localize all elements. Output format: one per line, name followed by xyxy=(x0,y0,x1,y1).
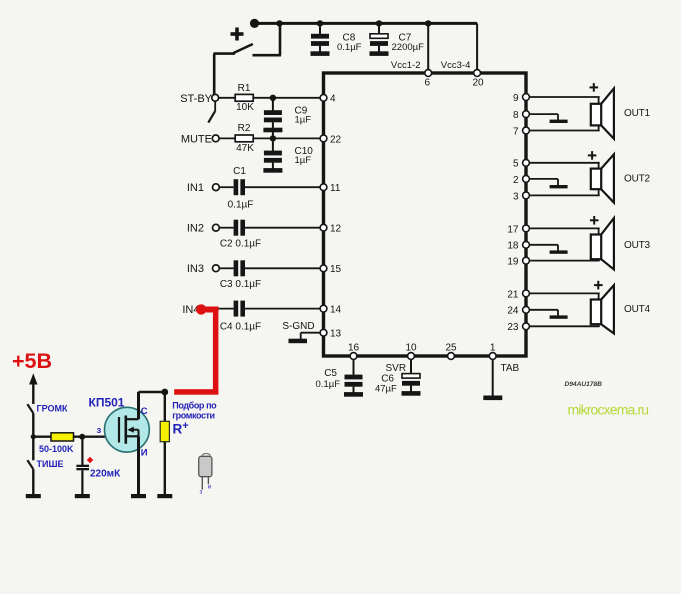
svg-text:1: 1 xyxy=(490,343,496,354)
svg-text:24: 24 xyxy=(507,306,519,317)
svg-text:и: и xyxy=(208,485,211,491)
svg-text:Подбор по: Подбор по xyxy=(172,401,217,411)
svg-text:IN3: IN3 xyxy=(187,263,204,275)
svg-text:TAB: TAB xyxy=(501,363,520,374)
svg-text:47K: 47K xyxy=(236,143,254,154)
svg-text:220мК: 220мК xyxy=(90,469,121,480)
svg-text:10K: 10K xyxy=(236,102,254,113)
svg-text:9: 9 xyxy=(513,93,519,104)
svg-text:16: 16 xyxy=(348,343,360,354)
svg-text:C1: C1 xyxy=(233,166,246,177)
svg-text:OUT2: OUT2 xyxy=(624,174,651,185)
svg-text:ST-BY: ST-BY xyxy=(180,93,212,105)
svg-text:ГРОМК: ГРОМК xyxy=(37,403,68,413)
svg-text:25: 25 xyxy=(445,343,457,354)
svg-text:C3 0.1µF: C3 0.1µF xyxy=(220,279,261,290)
svg-text:0.1µF: 0.1µF xyxy=(228,200,254,211)
svg-text:Vcc3-4: Vcc3-4 xyxy=(441,60,471,71)
svg-text:OUT1: OUT1 xyxy=(624,108,651,119)
svg-text:2: 2 xyxy=(513,175,519,186)
svg-text:0.1µF: 0.1µF xyxy=(337,42,362,53)
svg-text:17: 17 xyxy=(507,224,519,235)
svg-text:3: 3 xyxy=(513,191,519,202)
svg-text:4: 4 xyxy=(330,94,336,105)
svg-text:20: 20 xyxy=(473,78,485,89)
svg-text:КП501: КП501 xyxy=(89,395,125,409)
svg-text:D94AU178B: D94AU178B xyxy=(565,381,603,388)
svg-text:з: з xyxy=(97,425,102,436)
svg-text:22: 22 xyxy=(330,134,342,145)
svg-text:5: 5 xyxy=(513,159,519,170)
svg-text:+5В: +5В xyxy=(12,349,52,373)
svg-text:1µF: 1µF xyxy=(295,115,312,126)
svg-text:50-100K: 50-100K xyxy=(39,444,74,454)
svg-text:MUTE: MUTE xyxy=(181,133,212,145)
svg-text:IN2: IN2 xyxy=(187,223,204,235)
svg-text:12: 12 xyxy=(330,224,342,235)
svg-text:2200µF: 2200µF xyxy=(392,42,425,53)
svg-text:47µF: 47µF xyxy=(375,383,397,394)
svg-text:14: 14 xyxy=(330,305,342,316)
svg-text:R1: R1 xyxy=(238,83,251,94)
svg-text:Vcc1-2: Vcc1-2 xyxy=(391,60,421,71)
svg-text:OUT4: OUT4 xyxy=(624,304,651,315)
svg-text:IN1: IN1 xyxy=(187,182,204,194)
svg-text:21: 21 xyxy=(507,289,519,300)
svg-text:11: 11 xyxy=(330,183,341,194)
svg-text:10: 10 xyxy=(405,343,417,354)
svg-text:23: 23 xyxy=(507,322,519,333)
svg-text:R2: R2 xyxy=(238,123,251,134)
svg-text:SVR: SVR xyxy=(386,363,407,374)
svg-text:7: 7 xyxy=(513,126,519,137)
svg-text:6: 6 xyxy=(425,78,431,89)
svg-text:19: 19 xyxy=(507,257,519,268)
svg-text:C4 0.1µF: C4 0.1µF xyxy=(220,321,261,332)
svg-text:18: 18 xyxy=(507,241,519,252)
svg-text:C2 0.1µF: C2 0.1µF xyxy=(220,238,261,249)
svg-text:И: И xyxy=(141,448,148,459)
svg-text:громкости: громкости xyxy=(172,411,214,421)
svg-text:C5: C5 xyxy=(324,368,337,379)
svg-text:з: з xyxy=(200,490,203,496)
svg-text:13: 13 xyxy=(330,329,342,340)
svg-text:ТИШЕ: ТИШЕ xyxy=(37,459,64,469)
svg-text:15: 15 xyxy=(330,264,342,275)
svg-text:S-GND: S-GND xyxy=(282,321,314,332)
svg-text:0.1µF: 0.1µF xyxy=(316,379,341,390)
svg-text:1µF: 1µF xyxy=(295,155,312,166)
svg-text:mikrocxema.ru: mikrocxema.ru xyxy=(568,402,649,418)
svg-text:OUT3: OUT3 xyxy=(624,240,651,251)
svg-text:8: 8 xyxy=(513,110,519,121)
svg-text:С: С xyxy=(141,406,148,417)
